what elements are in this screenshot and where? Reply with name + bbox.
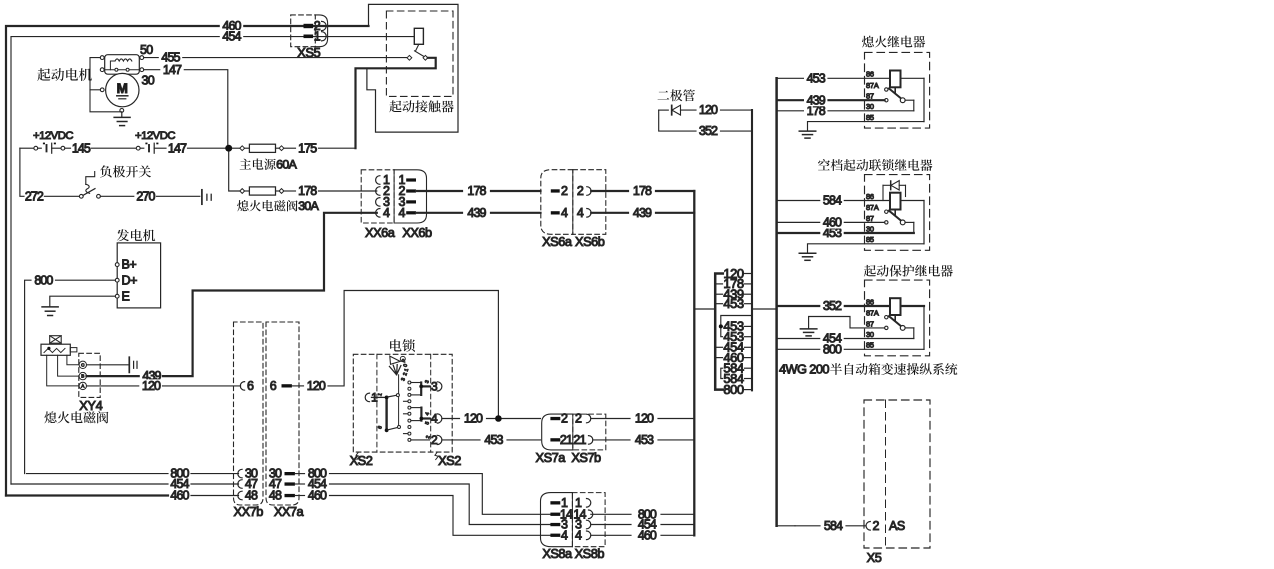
harness ladder wire labels bbox=[715, 266, 752, 397]
svg-text:D+: D+ bbox=[122, 273, 138, 287]
connector XY4 dashed box bbox=[79, 353, 100, 397]
svg-text:21: 21 bbox=[560, 433, 573, 447]
label 起动接触器 (starting contactor) bbox=[389, 100, 453, 112]
wire 454 XX7a to XS8a pin3 bbox=[295, 477, 550, 524]
wire 454 to relay K3 start protection pin 30 bbox=[777, 332, 914, 346]
label XS6a bbox=[542, 234, 573, 249]
contactor switch contacts bbox=[407, 51, 428, 60]
svg-text:800: 800 bbox=[823, 342, 842, 356]
wire 460 to relay K2 neutral-start interlock pin 87 bbox=[777, 216, 885, 230]
relay K2 neutral-start interlock frame right edge bbox=[923, 201, 925, 244]
lock pin 2 wire bbox=[411, 435, 432, 440]
svg-text:XX6a: XX6a bbox=[365, 225, 396, 240]
svg-text:XS7a: XS7a bbox=[536, 450, 567, 465]
svg-text:87A: 87A bbox=[866, 203, 879, 212]
relay K1 flameout contacts bbox=[885, 88, 906, 103]
label 熄火继电器 bbox=[862, 36, 925, 48]
lock contact column circles bbox=[404, 381, 411, 441]
connector XS7a/XS7b box bbox=[542, 414, 606, 450]
XS6 pin 4 row bbox=[551, 206, 591, 220]
wire 352 diode loop bbox=[659, 110, 752, 138]
label XY4 bbox=[79, 398, 102, 413]
connector XX7b dashed box bbox=[234, 322, 264, 505]
XS7 pin 21 row bbox=[550, 433, 592, 447]
junction node 120 bbox=[495, 415, 502, 422]
XY4 pin A bbox=[47, 355, 87, 389]
label 4WG 200 semi-automatic gearbox control system bbox=[779, 362, 957, 377]
svg-text:XS2: XS2 bbox=[350, 453, 373, 468]
lock common bar bbox=[377, 396, 388, 433]
svg-text:453: 453 bbox=[723, 296, 743, 311]
wire 460 (battery feed, top-left loop) bbox=[6, 26, 369, 496]
relay K3 start protection frame right edge bbox=[923, 306, 925, 349]
svg-text:4WG 200: 4WG 200 bbox=[779, 362, 829, 377]
label XS5 bbox=[297, 45, 320, 60]
svg-text:XS8b: XS8b bbox=[575, 546, 605, 561]
label wire 460 bbox=[220, 19, 243, 33]
svg-text:439: 439 bbox=[467, 206, 486, 220]
svg-text:175: 175 bbox=[298, 141, 317, 155]
XX6 pin 1 row bbox=[376, 173, 416, 187]
lock pin 1 (XS2) bbox=[365, 390, 385, 404]
label wire 178 bbox=[298, 184, 317, 198]
label +12VDC left bbox=[33, 130, 73, 142]
generator E ground wire bbox=[50, 296, 116, 306]
svg-text:XS8a: XS8a bbox=[542, 546, 573, 561]
svg-text:460: 460 bbox=[308, 489, 327, 503]
label XS8b bbox=[575, 546, 605, 561]
svg-text:2: 2 bbox=[577, 184, 584, 198]
relay K2 neutral-start interlock dashed body bbox=[865, 175, 930, 251]
wire 120 from XY4 pin A bbox=[87, 379, 241, 393]
wire 178 XX6b to XS6a (thick) bbox=[416, 184, 541, 198]
svg-text:2: 2 bbox=[561, 412, 568, 426]
svg-text:120: 120 bbox=[307, 379, 326, 393]
right harness bus bbox=[775, 78, 778, 526]
svg-text:30A: 30A bbox=[298, 199, 319, 213]
wire 178 XS6b to left bus (thick) bbox=[591, 184, 694, 198]
connector XX7a dashed box bbox=[266, 322, 299, 505]
svg-text:460: 460 bbox=[823, 216, 842, 230]
wire 453 to relay K2 neutral-start interlock pin 30 bbox=[777, 226, 914, 240]
XX6 pin 2 row bbox=[376, 184, 416, 198]
label 主电源60A (main power 60A) bbox=[240, 158, 298, 172]
svg-text:4: 4 bbox=[577, 206, 584, 220]
wire 453 lock pin2 to XS7a pin21 bbox=[442, 433, 541, 447]
harness ladder left rail bbox=[715, 274, 723, 390]
svg-text:85: 85 bbox=[866, 113, 874, 122]
wire 145 to battery 2 bbox=[92, 147, 137, 149]
wire 352 to relay K3 start protection pin 86 bbox=[777, 299, 924, 313]
svg-text:439: 439 bbox=[807, 93, 826, 107]
svg-text:X5: X5 bbox=[867, 550, 882, 565]
svg-text:352: 352 bbox=[699, 124, 718, 138]
XX7 pin 47 row bbox=[238, 477, 295, 491]
XS6 pin 2 row bbox=[551, 184, 591, 198]
link wire battery minus to switch 272 bbox=[20, 148, 24, 196]
label 起动电机 (starter motor) bbox=[37, 68, 91, 81]
label wire 145 bbox=[72, 141, 91, 155]
svg-text:60A: 60A bbox=[276, 158, 297, 172]
XS8 pin 1 row bbox=[550, 496, 590, 510]
wire 272 to negative switch bbox=[44, 195, 79, 197]
relay K2 neutral-start interlock suppression diode bbox=[883, 181, 906, 201]
wire 120 lock pin4 to XS7a pin2 bbox=[442, 412, 541, 426]
diode symbol bbox=[659, 105, 696, 115]
starting contactor outer wire loop bbox=[367, 4, 458, 132]
XY4 pin B bbox=[58, 355, 87, 380]
relay K3 start protection contacts bbox=[885, 316, 906, 331]
svg-text:178: 178 bbox=[633, 184, 652, 198]
svg-text:120: 120 bbox=[464, 412, 483, 426]
svg-text:86: 86 bbox=[866, 192, 874, 201]
wire 120 XX7a pin6 to lock (via overhead route) bbox=[292, 291, 499, 416]
svg-text:87: 87 bbox=[866, 214, 874, 223]
label XX7b bbox=[234, 504, 264, 519]
wire 454 XS8b to bus bbox=[591, 518, 695, 532]
label XX6b bbox=[402, 225, 432, 240]
relay K2 neutral-start interlock coil bbox=[890, 193, 901, 215]
XS8 pin 4 row bbox=[550, 528, 590, 542]
svg-text:87A: 87A bbox=[866, 309, 879, 318]
svg-text:XX7a: XX7a bbox=[274, 504, 305, 519]
svg-text:460: 460 bbox=[638, 528, 657, 542]
relay K3 start protection dashed body bbox=[865, 280, 930, 356]
ground relay K1 flameout bbox=[799, 131, 816, 138]
wire 584 to X5 pin 2 bbox=[777, 519, 866, 533]
connector XS8a/XS8b box bbox=[541, 493, 606, 547]
label wire 272 bbox=[25, 189, 44, 203]
harness vertical from diode bbox=[751, 110, 753, 390]
relay K2 neutral-start interlock common jog to pin 30 bbox=[905, 222, 914, 233]
svg-text:21: 21 bbox=[573, 433, 586, 447]
relay K3 pin 87 ground chain bbox=[809, 317, 885, 329]
svg-text:4: 4 bbox=[575, 528, 582, 542]
svg-text:30: 30 bbox=[142, 73, 155, 87]
label X5 bbox=[867, 550, 882, 565]
left harness bus bbox=[693, 191, 695, 535]
wire 270 bbox=[100, 189, 199, 203]
crossover wire left bus to ladder bbox=[694, 308, 715, 310]
relay K1 flameout dashed body bbox=[865, 52, 930, 128]
ground relay K2 neutral-start interlock bbox=[799, 253, 816, 260]
svg-text:XS6b: XS6b bbox=[575, 234, 605, 249]
label wire 120 diode bbox=[699, 103, 718, 117]
svg-text:30: 30 bbox=[866, 102, 874, 111]
svg-text:AS: AS bbox=[889, 519, 905, 533]
starting contactor dashed body bbox=[386, 11, 453, 96]
svg-text:145: 145 bbox=[72, 141, 91, 155]
lock step to pin 4 bbox=[411, 408, 431, 426]
svg-text:+12VDC: +12VDC bbox=[33, 130, 73, 142]
svg-text:147: 147 bbox=[168, 141, 187, 155]
ground at generator bbox=[42, 307, 58, 316]
svg-text:270: 270 bbox=[136, 189, 155, 203]
svg-text:86: 86 bbox=[866, 70, 874, 79]
svg-text:XS7b: XS7b bbox=[571, 450, 601, 465]
label 发电机 (generator) bbox=[117, 229, 155, 241]
junction node main power bbox=[225, 145, 232, 152]
lock rotary pointer symbol bbox=[389, 356, 405, 375]
wire 120 diode to harness bbox=[721, 109, 753, 111]
relay K3 start protection pin labels 86 87A 87 30 85 bbox=[866, 297, 879, 349]
svg-text:48: 48 bbox=[245, 489, 258, 503]
svg-text:+12VDC: +12VDC bbox=[135, 130, 175, 142]
wire 800 to relay K3 start protection pin 85 bbox=[777, 342, 924, 356]
wire 800 XX7a to XS8a pin14 bbox=[295, 467, 550, 515]
lock pin 3 (XS2) bbox=[431, 379, 442, 393]
starter motor M bbox=[90, 58, 139, 113]
X5 pin 2 AS bbox=[866, 519, 905, 533]
wire 454 into XX7b pin47 bbox=[11, 477, 239, 491]
svg-text:2: 2 bbox=[873, 519, 880, 533]
relay K3 start protection common jog to pin 30 bbox=[905, 328, 914, 339]
wire pin C to terminal symbol bbox=[87, 357, 138, 372]
svg-text:800: 800 bbox=[34, 273, 53, 287]
wire 439 XS6b to left bus (thick) bbox=[591, 206, 694, 220]
label XX6a bbox=[365, 225, 396, 240]
svg-text:584: 584 bbox=[824, 519, 843, 533]
svg-text:460: 460 bbox=[170, 489, 189, 503]
XX7 pin 48 row bbox=[238, 489, 295, 503]
svg-text:4: 4 bbox=[383, 206, 390, 220]
lock pin 2 (XS2) bbox=[431, 433, 442, 447]
label XS6b bbox=[575, 234, 605, 249]
ladder 584 pair bracket bbox=[721, 368, 723, 378]
wire 455 solenoid to contactor switch bbox=[144, 51, 408, 65]
wire 120 XS7b to harness bus bbox=[591, 412, 695, 426]
wire 584 to relay K2 neutral-start interlock pin 86 bbox=[777, 194, 924, 208]
label 空档起动联锁继电器 bbox=[818, 159, 932, 171]
wire 439 from XY4 pin B (thick) bbox=[87, 213, 377, 383]
relay K1 flameout frame right edge bbox=[923, 78, 925, 121]
svg-text:30: 30 bbox=[866, 330, 874, 339]
label XS2 right with leader bbox=[435, 452, 461, 468]
svg-text:272: 272 bbox=[25, 189, 44, 203]
lock position labels P 0 1 2 3 bbox=[400, 358, 410, 382]
svg-text:453: 453 bbox=[484, 433, 503, 447]
ignition lock dashed box XS2 bbox=[353, 354, 452, 452]
XS8 pin 3 row bbox=[550, 518, 590, 532]
crossover wire ladder to right bus bbox=[752, 308, 777, 310]
wire 460 XS8b to bus bbox=[591, 528, 695, 542]
terminal symbol wire 270 bbox=[202, 190, 211, 204]
wire 175 fuse to contactor switch (thick) bbox=[356, 58, 436, 148]
svg-text:XX6b: XX6b bbox=[402, 225, 432, 240]
label wire 454 bbox=[220, 30, 243, 44]
fuse main power 60A bbox=[232, 144, 295, 152]
svg-text:B+: B+ bbox=[122, 258, 137, 272]
relay K2 neutral-start interlock contacts bbox=[885, 210, 906, 225]
starter motor solenoid coil bbox=[100, 55, 143, 74]
svg-text:85: 85 bbox=[866, 341, 874, 350]
wire 460 XX7a to XS8a pin4 bbox=[295, 489, 550, 536]
relay K1 flameout pin 85 ground wire bbox=[808, 122, 925, 131]
svg-text:48: 48 bbox=[269, 489, 282, 503]
ground relay K3 bbox=[800, 329, 817, 336]
relay K3 start protection coil bbox=[890, 298, 901, 320]
label terminal 50 bbox=[140, 43, 153, 57]
relay K1 flameout coil bbox=[890, 71, 901, 93]
relay K1 flameout common jog to pin 30 bbox=[905, 100, 914, 111]
svg-text:XS6a: XS6a bbox=[542, 234, 573, 249]
wire 178 to relay K1 flameout pin 30 bbox=[777, 104, 914, 118]
negative battery switch bbox=[79, 172, 100, 199]
svg-text:352: 352 bbox=[823, 299, 842, 313]
wire 175 to contactor bbox=[319, 147, 356, 149]
XX7 pin 30 row bbox=[238, 467, 295, 481]
svg-text:2: 2 bbox=[575, 412, 582, 426]
XS7 pin 2 row bbox=[550, 412, 590, 426]
svg-text:120: 120 bbox=[635, 412, 654, 426]
wire junction down to fuse 2 bbox=[229, 152, 240, 191]
svg-text:800: 800 bbox=[723, 382, 743, 397]
svg-text:178: 178 bbox=[298, 184, 317, 198]
svg-text:XS2: XS2 bbox=[438, 453, 461, 468]
battery +12VDC left bbox=[20, 143, 71, 154]
wire 439 to relay K1 flameout pin 87 bbox=[777, 93, 885, 107]
wire 800 into XX7b pin30 bbox=[27, 467, 239, 481]
wire 800 XS8b to bus bbox=[591, 507, 695, 521]
svg-text:XX7b: XX7b bbox=[234, 504, 264, 519]
svg-text:6: 6 bbox=[247, 379, 254, 393]
svg-text:4: 4 bbox=[561, 528, 568, 542]
label 二极管 (diode) bbox=[658, 89, 695, 101]
wire 453 to relay K1 flameout pin 86 bbox=[777, 71, 924, 85]
label XS7a bbox=[536, 450, 567, 465]
contactor coil bbox=[414, 28, 423, 51]
svg-text:178: 178 bbox=[467, 184, 486, 198]
wire 460 into XX7b pin48 bbox=[6, 489, 239, 503]
fuse flameout solenoid 30A bbox=[240, 187, 296, 195]
ladder 453 pair bracket bbox=[719, 316, 752, 337]
svg-text:453: 453 bbox=[635, 433, 654, 447]
relay K1 flameout pin labels 86 87A 87 30 85 bbox=[866, 70, 879, 122]
wire 147 to junction bbox=[188, 147, 226, 149]
connector XX6a/XX6b box bbox=[361, 170, 426, 223]
label 熄火电磁阀30A (flameout solenoid valve 30A) bbox=[237, 199, 320, 213]
svg-text:50: 50 bbox=[140, 43, 153, 57]
svg-text:XY4: XY4 bbox=[79, 398, 102, 413]
wire 800 generator D+ bbox=[25, 273, 116, 473]
svg-text:120: 120 bbox=[699, 103, 718, 117]
label wire 175 bbox=[298, 141, 317, 155]
label XS8a bbox=[542, 546, 573, 561]
label 电锁 (ignition lock) bbox=[390, 339, 415, 352]
ground under starter motor bbox=[114, 112, 130, 125]
svg-text:584: 584 bbox=[823, 194, 842, 208]
svg-text:4: 4 bbox=[399, 206, 406, 220]
svg-text:87A: 87A bbox=[866, 81, 879, 90]
XX7 pin 6 row bbox=[240, 379, 292, 393]
connector XS6a/XS6b box bbox=[541, 170, 606, 235]
svg-text:E: E bbox=[122, 289, 130, 303]
wire 178 fuse to XX6a pin2 bbox=[319, 190, 377, 192]
svg-text:147: 147 bbox=[163, 63, 182, 77]
svg-text:120: 120 bbox=[142, 379, 161, 393]
svg-text:4: 4 bbox=[561, 206, 568, 220]
label XS2 left with leader bbox=[350, 452, 373, 468]
label XS7b bbox=[571, 450, 601, 465]
svg-text:85: 85 bbox=[866, 235, 874, 244]
wire 454 (top) bbox=[11, 37, 414, 484]
XX6 pin 3 row bbox=[376, 195, 416, 209]
relay K2 neutral-start interlock pin 85 ground wire bbox=[808, 244, 925, 253]
XX6 pin 4 row bbox=[376, 206, 416, 220]
svg-text:6: 6 bbox=[270, 379, 277, 393]
lock internal column line bbox=[398, 375, 400, 428]
lock switch arms bbox=[387, 394, 400, 430]
svg-text:1: 1 bbox=[314, 30, 321, 44]
wire 453 XS7b to harness bus bbox=[593, 433, 695, 447]
wire 147 solenoid to main junction bbox=[144, 63, 228, 145]
wire 439 XX6b to XS6a (thick) bbox=[416, 206, 541, 220]
svg-text:87: 87 bbox=[866, 319, 874, 328]
label XX7a bbox=[274, 504, 305, 519]
relay K2 neutral-start interlock pin labels 86 87A 87 30 85 bbox=[866, 192, 879, 244]
battery +12VDC right bbox=[136, 143, 166, 154]
connector XS5 bbox=[291, 15, 328, 47]
label +12VDC right bbox=[135, 130, 175, 142]
label 负极开关 (negative switch) bbox=[100, 165, 151, 177]
svg-text:453: 453 bbox=[807, 71, 826, 85]
connector X5 dashed box bbox=[864, 400, 930, 548]
flameout solenoid valve symbol XY4 bbox=[41, 336, 77, 356]
label terminal 30 bbox=[142, 73, 155, 87]
svg-text:M: M bbox=[117, 81, 128, 96]
XS8 pin 14 row bbox=[550, 507, 592, 521]
label 起动保护继电器 bbox=[864, 265, 953, 277]
lock step to pin 3 bbox=[411, 379, 431, 395]
label 熄火电磁阀 (flameout solenoid valve) bbox=[44, 411, 108, 423]
svg-text:454: 454 bbox=[222, 30, 241, 44]
label wire 147 battery bbox=[168, 141, 187, 155]
generator box bbox=[115, 243, 160, 308]
XY4 pin C bbox=[67, 355, 87, 368]
svg-text:2: 2 bbox=[561, 184, 568, 198]
svg-text:439: 439 bbox=[633, 206, 652, 220]
svg-text:B: B bbox=[81, 374, 84, 379]
lock pin 4 (XS2) bbox=[431, 411, 442, 425]
